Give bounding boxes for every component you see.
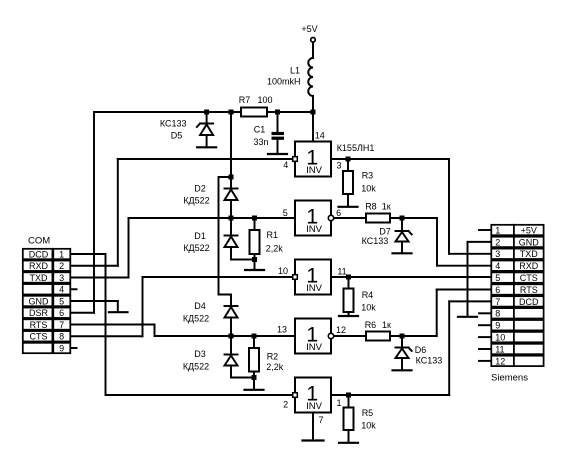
svg-text:7: 7 <box>59 320 64 330</box>
svg-text:DCD: DCD <box>519 297 539 307</box>
svg-text:INV: INV <box>306 165 323 176</box>
svg-text:2: 2 <box>495 237 500 247</box>
svg-text:CTS: CTS <box>30 332 48 342</box>
svg-text:КД522: КД522 <box>183 195 209 205</box>
svg-text:RTS: RTS <box>520 285 538 295</box>
svg-text:5: 5 <box>495 273 500 283</box>
svg-text:6: 6 <box>336 208 341 218</box>
svg-text:R4: R4 <box>362 290 374 300</box>
svg-text:TXD: TXD <box>30 273 49 283</box>
svg-text:RXD: RXD <box>519 261 539 271</box>
svg-text:4: 4 <box>495 261 500 271</box>
svg-text:R1: R1 <box>267 230 279 240</box>
svg-text:3: 3 <box>59 273 64 283</box>
svg-text:3: 3 <box>495 249 500 259</box>
svg-text:1к: 1к <box>382 320 391 330</box>
svg-text:7: 7 <box>495 297 500 307</box>
svg-text:11: 11 <box>337 267 346 277</box>
svg-text:100: 100 <box>257 95 272 105</box>
svg-text:4: 4 <box>59 285 64 295</box>
svg-text:INV: INV <box>306 401 323 412</box>
svg-text:INV: INV <box>306 224 323 235</box>
svg-text:L1: L1 <box>290 66 300 76</box>
svg-text:2: 2 <box>283 399 288 409</box>
svg-text:КС133: КС133 <box>160 119 187 129</box>
svg-text:R5: R5 <box>362 408 374 418</box>
svg-text:10: 10 <box>278 266 288 276</box>
svg-text:6: 6 <box>59 308 64 318</box>
svg-text:33n: 33n <box>253 137 268 147</box>
svg-text:11: 11 <box>495 344 504 354</box>
svg-text:2,2k: 2,2k <box>266 244 284 254</box>
svg-text:D7: D7 <box>379 226 391 236</box>
svg-text:R3: R3 <box>362 171 374 181</box>
svg-text:1: 1 <box>336 398 341 408</box>
svg-text:CTS: CTS <box>520 273 538 283</box>
svg-text:DCD: DCD <box>29 249 49 259</box>
svg-text:1: 1 <box>59 249 64 259</box>
svg-text:R8: R8 <box>365 201 377 211</box>
svg-text:КД522: КД522 <box>183 362 209 372</box>
svg-text:R7: R7 <box>239 95 251 105</box>
svg-text:10k: 10k <box>361 183 376 193</box>
svg-text:D3: D3 <box>194 349 206 359</box>
svg-text:RXD: RXD <box>29 261 49 271</box>
svg-text:КС133: КС133 <box>362 236 389 246</box>
svg-text:2: 2 <box>59 261 64 271</box>
svg-text:10k: 10k <box>361 302 376 312</box>
svg-text:10: 10 <box>495 333 505 343</box>
svg-text:8: 8 <box>59 332 64 342</box>
svg-text:INV: INV <box>306 342 323 353</box>
svg-text:КД522: КД522 <box>183 314 209 324</box>
svg-text:1: 1 <box>495 225 500 235</box>
svg-text:C1: C1 <box>254 124 266 134</box>
svg-text:9: 9 <box>59 343 64 353</box>
svg-text:8: 8 <box>495 309 500 319</box>
svg-text:12: 12 <box>495 356 505 366</box>
svg-text:Siemens: Siemens <box>491 373 528 384</box>
svg-text:3: 3 <box>336 160 341 170</box>
svg-text:2,2k: 2,2k <box>266 362 284 372</box>
svg-text:КД522: КД522 <box>183 243 209 253</box>
svg-text:9: 9 <box>495 321 500 331</box>
svg-text:DSR: DSR <box>29 308 49 318</box>
svg-text:D2: D2 <box>194 184 206 194</box>
svg-text:D4: D4 <box>194 301 206 311</box>
svg-text:+5V: +5V <box>301 24 317 34</box>
svg-text:6: 6 <box>495 285 500 295</box>
svg-text:D1: D1 <box>194 231 206 241</box>
svg-text:GND: GND <box>519 237 540 247</box>
svg-text:14: 14 <box>315 131 325 141</box>
svg-text:INV: INV <box>306 283 323 294</box>
svg-text:К155ЛН1: К155ЛН1 <box>337 143 375 153</box>
svg-text:5: 5 <box>59 296 64 306</box>
svg-text:TXD: TXD <box>520 249 539 259</box>
svg-text:5: 5 <box>283 208 288 218</box>
svg-text:4: 4 <box>283 160 288 170</box>
svg-text:D5: D5 <box>171 130 183 140</box>
svg-text:12: 12 <box>336 325 346 335</box>
svg-text:R2: R2 <box>267 352 279 362</box>
svg-text:100mkH: 100mkH <box>267 76 301 86</box>
svg-text:D6: D6 <box>415 345 427 355</box>
svg-text:+5V: +5V <box>521 225 537 235</box>
svg-text:GND: GND <box>29 296 50 306</box>
svg-text:7: 7 <box>318 415 323 425</box>
svg-text:13: 13 <box>277 325 287 335</box>
svg-text:10k: 10k <box>361 421 376 431</box>
svg-text:COM: COM <box>28 236 50 247</box>
svg-text:RTS: RTS <box>30 320 48 330</box>
svg-text:КС133: КС133 <box>416 356 443 366</box>
svg-text:1к: 1к <box>382 201 391 211</box>
svg-text:R6: R6 <box>365 320 377 330</box>
